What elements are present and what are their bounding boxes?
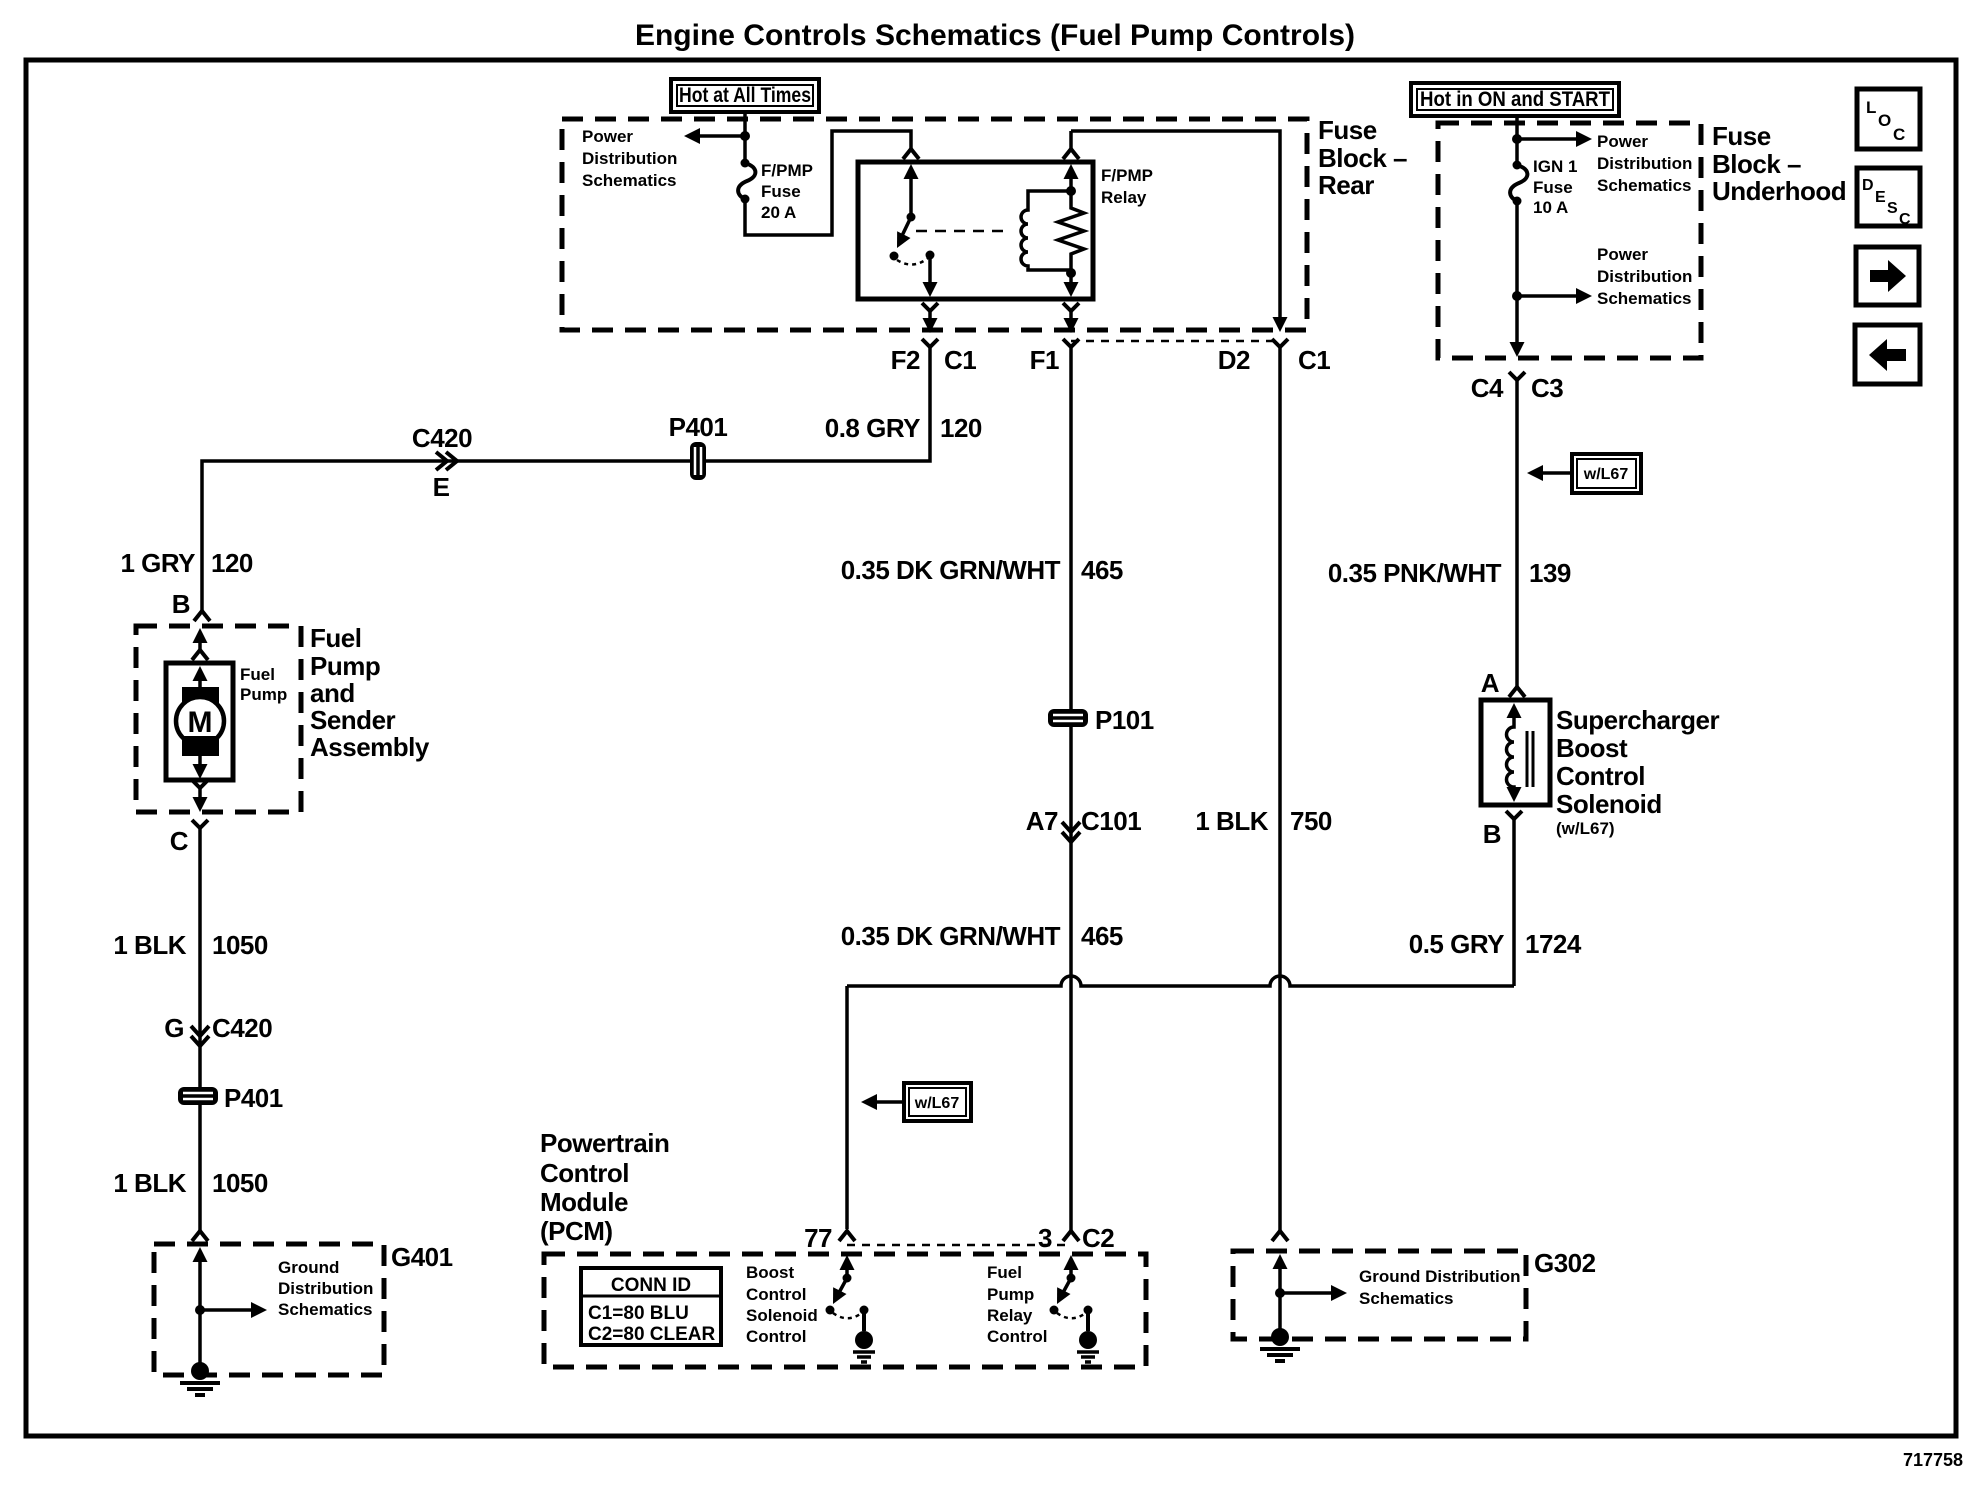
text Fuse Block - Underhood xyxy=(1712,121,1846,206)
ground symbol pin 77 xyxy=(853,1331,875,1362)
relay mechanical link xyxy=(916,230,1010,233)
svg-text:10 A: 10 A xyxy=(1533,198,1568,217)
svg-text:Power: Power xyxy=(582,127,633,146)
pin 77 chevron xyxy=(839,1231,855,1241)
svg-text:C: C xyxy=(1899,211,1911,228)
svg-text:S: S xyxy=(1887,200,1898,217)
nav box DESC xyxy=(1857,168,1920,228)
junction xyxy=(1512,134,1522,144)
svg-text:Fuse: Fuse xyxy=(1318,115,1377,145)
ground wire in G401 xyxy=(193,1247,208,1262)
fuel pump terminal C inner xyxy=(192,780,208,788)
svg-text:A: A xyxy=(1481,668,1500,698)
svg-text:1724: 1724 xyxy=(1525,929,1582,959)
relay contact dashed arc xyxy=(897,258,928,265)
svg-text:Fuel: Fuel xyxy=(987,1263,1022,1282)
wire from Hot at All Times to fuse xyxy=(743,112,747,163)
text Power Distribution Schematics xyxy=(1597,245,1692,308)
svg-text:G401: G401 xyxy=(391,1242,453,1272)
grommet P401 (top) xyxy=(690,442,706,480)
wire relay top to D2 drop xyxy=(1071,131,1280,317)
label F/PMP Relay xyxy=(1101,166,1153,207)
svg-text:Rear: Rear xyxy=(1318,170,1374,200)
svg-text:P401: P401 xyxy=(669,412,728,442)
motor brush top xyxy=(182,687,219,707)
terminal out of fuse block xyxy=(1510,342,1525,357)
label Powertrain Control Module (PCM) xyxy=(540,1128,669,1246)
dashed box Fuel Pump and Sender Assembly xyxy=(136,626,301,812)
svg-text:120: 120 xyxy=(211,548,253,578)
svg-text:F1: F1 xyxy=(1030,345,1059,375)
svg-text:Solenoid: Solenoid xyxy=(1556,789,1662,819)
svg-text:Control: Control xyxy=(746,1327,806,1346)
svg-text:Fuse: Fuse xyxy=(761,182,801,201)
arrow to Ground Distribution Schematics xyxy=(1280,1291,1338,1295)
svg-text:C420: C420 xyxy=(212,1013,272,1043)
dashed box Fuse Block - Underhood xyxy=(1438,123,1701,358)
ground symbol G401 xyxy=(180,1362,220,1395)
svg-text:C2=80 CLEAR: C2=80 CLEAR xyxy=(588,1324,716,1345)
relay coil bottom pin to F1 xyxy=(1069,273,1073,283)
wire F1 down to PCM pin 3 (0.35 DK GRN/WHT 465) xyxy=(1069,358,1073,1231)
svg-text:1050: 1050 xyxy=(212,930,268,960)
wire fuse to relay common xyxy=(745,131,911,235)
junction in G302 xyxy=(1275,1288,1285,1298)
svg-text:Pump: Pump xyxy=(240,685,287,704)
relay switch arm xyxy=(899,217,911,242)
svg-text:Distribution: Distribution xyxy=(582,149,677,168)
svg-text:F/PMP: F/PMP xyxy=(1101,166,1153,185)
motor terminal top xyxy=(193,666,208,681)
svg-text:Control: Control xyxy=(746,1285,806,1304)
D2 arrowhead at fuse block edge xyxy=(1273,317,1288,332)
connector A7 C101 xyxy=(1026,806,1141,842)
svg-text:P401: P401 xyxy=(224,1083,283,1113)
wire F2 to fuel pump (0.8 GRY 120) xyxy=(202,358,930,611)
svg-text:B: B xyxy=(1483,819,1501,849)
wire solenoid B to bus (0.5 GRY 1724) xyxy=(1512,829,1516,986)
svg-text:Schematics: Schematics xyxy=(1597,176,1692,195)
terminal F1 chevrons xyxy=(1063,303,1079,311)
svg-text:Schematics: Schematics xyxy=(278,1300,373,1319)
node C xyxy=(192,820,208,828)
svg-text:1 BLK: 1 BLK xyxy=(1195,806,1268,836)
svg-text:A7: A7 xyxy=(1026,806,1058,836)
svg-text:C1=80 BLU: C1=80 BLU xyxy=(588,1303,689,1324)
svg-text:Underhood: Underhood xyxy=(1712,176,1846,206)
svg-text:20 A: 20 A xyxy=(761,203,796,222)
text Fuse Block - Rear xyxy=(1318,115,1407,200)
relay switch common pin xyxy=(904,164,919,179)
terminal D2 chevron xyxy=(1272,339,1288,347)
fuse F/PMP 20 A xyxy=(738,159,755,204)
node B xyxy=(1506,811,1522,819)
svg-text:w/L67: w/L67 xyxy=(1583,466,1629,483)
dashed box G302 xyxy=(1233,1251,1526,1339)
svg-text:465: 465 xyxy=(1081,921,1123,951)
svg-text:0.8 GRY: 0.8 GRY xyxy=(825,413,920,443)
svg-text:Supercharger: Supercharger xyxy=(1556,705,1719,735)
arrow to Power Distribution Schematics xyxy=(1517,137,1583,141)
dashed box Fuse Block - Rear xyxy=(562,119,1307,330)
fuse IGN 1 10 A xyxy=(1510,161,1527,206)
connector C1 dashed line xyxy=(1071,340,1280,343)
motor brush bottom xyxy=(182,736,219,756)
terminal chevron relay common xyxy=(903,149,919,159)
label IGN 1 Fuse 10 A xyxy=(1533,157,1577,217)
svg-text:Boost: Boost xyxy=(746,1263,795,1282)
wire C to G401 (1 BLK 1050) xyxy=(198,838,202,1231)
svg-text:G: G xyxy=(164,1013,184,1043)
svg-text:Solenoid: Solenoid xyxy=(746,1306,818,1325)
svg-text:C4: C4 xyxy=(1471,373,1504,403)
svg-text:Boost: Boost xyxy=(1556,733,1628,763)
w/L67 flag xyxy=(1527,454,1641,493)
svg-text:P101: P101 xyxy=(1095,705,1154,735)
label F/PMP Fuse 20 A xyxy=(761,161,813,222)
svg-text:Fuse: Fuse xyxy=(1533,178,1573,197)
svg-text:C1: C1 xyxy=(944,345,976,375)
connector C2 dashed line xyxy=(847,1244,1071,1247)
wire to solenoid A (0.35 PNK/WHT 139) xyxy=(1515,390,1519,687)
nav box arrow left xyxy=(1855,325,1920,384)
svg-text:Fuel: Fuel xyxy=(310,623,361,653)
svg-text:Relay: Relay xyxy=(987,1306,1033,1325)
svg-text:Fuel: Fuel xyxy=(240,665,275,684)
svg-text:Relay: Relay xyxy=(1101,188,1147,207)
terminal chevron into G401 xyxy=(192,1231,208,1241)
junction in G401 xyxy=(195,1305,205,1315)
label Fuel Pump and Sender Assembly xyxy=(310,623,430,762)
svg-text:IGN 1: IGN 1 xyxy=(1533,157,1577,176)
arrow to Power Distribution Schematics xyxy=(700,134,745,138)
solenoid coil xyxy=(1507,703,1534,802)
svg-text:Schematics: Schematics xyxy=(1359,1289,1454,1308)
svg-text:C420: C420 xyxy=(412,423,472,453)
svg-text:Ground: Ground xyxy=(278,1258,339,1277)
wire D2 down to G302 (1 BLK 750) xyxy=(1278,358,1282,1231)
w/L67 flag xyxy=(861,1083,971,1121)
terminal chevron into G302 xyxy=(1272,1231,1288,1241)
svg-text:1 GRY: 1 GRY xyxy=(120,548,195,578)
svg-text:C3: C3 xyxy=(1531,373,1563,403)
motor terminal bottom xyxy=(198,756,202,765)
nav box arrow right xyxy=(1856,247,1919,305)
svg-text:1050: 1050 xyxy=(212,1168,268,1198)
svg-text:F/PMP: F/PMP xyxy=(761,161,813,180)
svg-text:Hot in ON and START: Hot in ON and START xyxy=(1420,88,1610,111)
svg-text:139: 139 xyxy=(1529,558,1571,588)
svg-text:C: C xyxy=(170,826,189,856)
svg-text:Hot at All Times: Hot at All Times xyxy=(679,84,811,107)
svg-text:E: E xyxy=(433,472,450,502)
svg-text:L: L xyxy=(1866,98,1876,117)
svg-text:D: D xyxy=(1862,177,1874,194)
svg-text:Block –: Block – xyxy=(1318,143,1407,173)
arrow to Power Distribution Schematics xyxy=(1517,294,1583,298)
svg-text:M: M xyxy=(188,706,213,739)
label Supercharger Boost Control Solenoid xyxy=(1556,705,1719,838)
svg-text:O: O xyxy=(1878,111,1891,130)
connector C420 E xyxy=(412,423,472,502)
svg-text:77: 77 xyxy=(804,1223,832,1253)
svg-text:G302: G302 xyxy=(1534,1248,1596,1278)
solenoid box xyxy=(1481,700,1550,805)
svg-text:Schematics: Schematics xyxy=(1597,289,1692,308)
svg-text:and: and xyxy=(310,678,355,708)
pin 77 internal switch xyxy=(826,1255,869,1331)
terminal F2 chevrons xyxy=(922,303,938,311)
junction xyxy=(1512,291,1522,301)
relay coil xyxy=(1021,191,1071,270)
svg-text:Power: Power xyxy=(1597,132,1648,151)
svg-text:1 BLK: 1 BLK xyxy=(113,1168,186,1198)
svg-text:0.35 DK GRN/WHT: 0.35 DK GRN/WHT xyxy=(841,555,1061,585)
svg-text:Sender: Sender xyxy=(310,705,396,735)
label Fuel Pump Relay Control xyxy=(987,1263,1047,1346)
svg-text:750: 750 xyxy=(1290,806,1332,836)
svg-text:Power: Power xyxy=(1597,245,1648,264)
label box "Hot in ON and START" xyxy=(1411,83,1619,116)
svg-text:E: E xyxy=(1875,189,1886,206)
text Power Distribution Schematics xyxy=(582,127,677,190)
svg-text:Ground Distribution: Ground Distribution xyxy=(1359,1267,1520,1286)
svg-text:CONN ID: CONN ID xyxy=(611,1275,691,1296)
svg-text:D2: D2 xyxy=(1218,345,1250,375)
nav box LOC xyxy=(1857,89,1920,149)
svg-text:(PCM): (PCM) xyxy=(540,1216,613,1246)
CONN ID table xyxy=(581,1268,721,1345)
svg-text:0.35 DK GRN/WHT: 0.35 DK GRN/WHT xyxy=(841,921,1061,951)
svg-text:Distribution: Distribution xyxy=(1597,154,1692,173)
svg-text:C101: C101 xyxy=(1081,806,1141,836)
relay resistor xyxy=(1058,191,1084,273)
svg-text:Powertrain: Powertrain xyxy=(540,1128,669,1158)
dashed box G401 xyxy=(154,1244,384,1375)
svg-text:Block –: Block – xyxy=(1712,149,1801,179)
svg-text:Distribution: Distribution xyxy=(1597,267,1692,286)
svg-text:Schematics: Schematics xyxy=(582,171,677,190)
grommet P101 xyxy=(1048,709,1088,727)
wire Hot in ON to IGN fuse xyxy=(1515,116,1519,165)
ground wire in G302 xyxy=(1273,1254,1288,1269)
fuel pump motor box xyxy=(166,663,233,780)
svg-text:F2: F2 xyxy=(891,345,920,375)
svg-text:Control: Control xyxy=(540,1158,629,1188)
svg-text:C: C xyxy=(1893,125,1905,144)
svg-text:0.5 GRY: 0.5 GRY xyxy=(1409,929,1504,959)
svg-text:1 BLK: 1 BLK xyxy=(113,930,186,960)
fuel pump terminal B inner xyxy=(193,628,208,643)
svg-text:Pump: Pump xyxy=(987,1285,1034,1304)
pin 3 chevron xyxy=(1063,1231,1079,1241)
svg-text:w/L67: w/L67 xyxy=(914,1095,960,1112)
dashed box PCM xyxy=(544,1254,1146,1367)
junction xyxy=(740,131,750,141)
relay coil top pin xyxy=(1069,131,1073,149)
svg-text:C2: C2 xyxy=(1082,1223,1114,1253)
svg-text:717758: 717758 xyxy=(1903,1450,1963,1470)
label Boost Control Solenoid Control xyxy=(746,1263,818,1346)
ground symbol pin 3 xyxy=(1077,1331,1099,1362)
arrow to Ground Distribution Schematics xyxy=(200,1308,258,1312)
svg-text:465: 465 xyxy=(1081,555,1123,585)
svg-text:Distribution: Distribution xyxy=(278,1279,373,1298)
relay NO contact to F2 pin xyxy=(926,251,935,260)
motor M circle xyxy=(176,697,224,745)
svg-text:B: B xyxy=(172,589,190,619)
svg-text:Fuse: Fuse xyxy=(1712,121,1771,151)
text Ground Distribution Schematics xyxy=(278,1258,373,1319)
svg-text:Pump: Pump xyxy=(310,651,380,681)
label box "Hot at All Times" xyxy=(671,79,819,112)
wire IGN fuse down xyxy=(1515,201,1519,344)
svg-text:Control: Control xyxy=(1556,761,1645,791)
bus wire 0.5 GRY with hops xyxy=(847,976,1514,986)
svg-text:(w/L67): (w/L67) xyxy=(1556,819,1615,838)
connector G C420 xyxy=(164,1013,272,1046)
svg-text:Module: Module xyxy=(540,1187,628,1217)
svg-text:Engine Controls Schematics (Fu: Engine Controls Schematics (Fuel Pump Co… xyxy=(635,19,1355,52)
grommet P401 (bottom) xyxy=(178,1087,218,1105)
svg-text:3: 3 xyxy=(1038,1223,1052,1253)
wire bus to PCM pin 77 xyxy=(845,986,849,1229)
svg-text:Control: Control xyxy=(987,1327,1047,1346)
svg-text:C1: C1 xyxy=(1298,345,1330,375)
svg-text:120: 120 xyxy=(940,413,982,443)
text Power Distribution Schematics xyxy=(1597,132,1692,195)
ground symbol G302 xyxy=(1260,1328,1300,1361)
pin 3 internal switch xyxy=(1050,1255,1093,1331)
relay NC contact xyxy=(890,252,899,261)
svg-text:0.35 PNK/WHT: 0.35 PNK/WHT xyxy=(1328,558,1502,588)
svg-text:Assembly: Assembly xyxy=(310,732,430,762)
relay box F/PMP xyxy=(858,162,1093,299)
text Ground Distribution Schematics xyxy=(1359,1267,1520,1308)
